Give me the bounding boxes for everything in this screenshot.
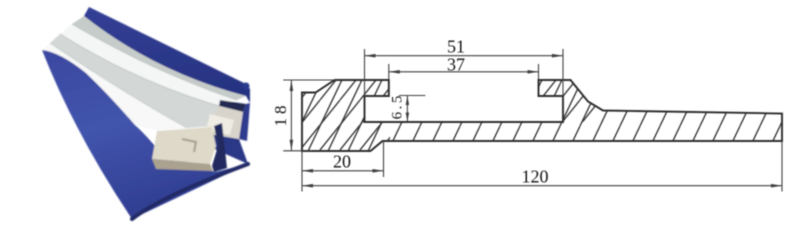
svg-text:37: 37 bbox=[447, 55, 465, 75]
svg-text:51: 51 bbox=[447, 37, 465, 57]
svg-text:6.5: 6.5 bbox=[390, 93, 406, 119]
svg-text:18: 18 bbox=[271, 102, 290, 127]
svg-text:120: 120 bbox=[522, 167, 549, 187]
svg-text:20: 20 bbox=[333, 152, 351, 172]
